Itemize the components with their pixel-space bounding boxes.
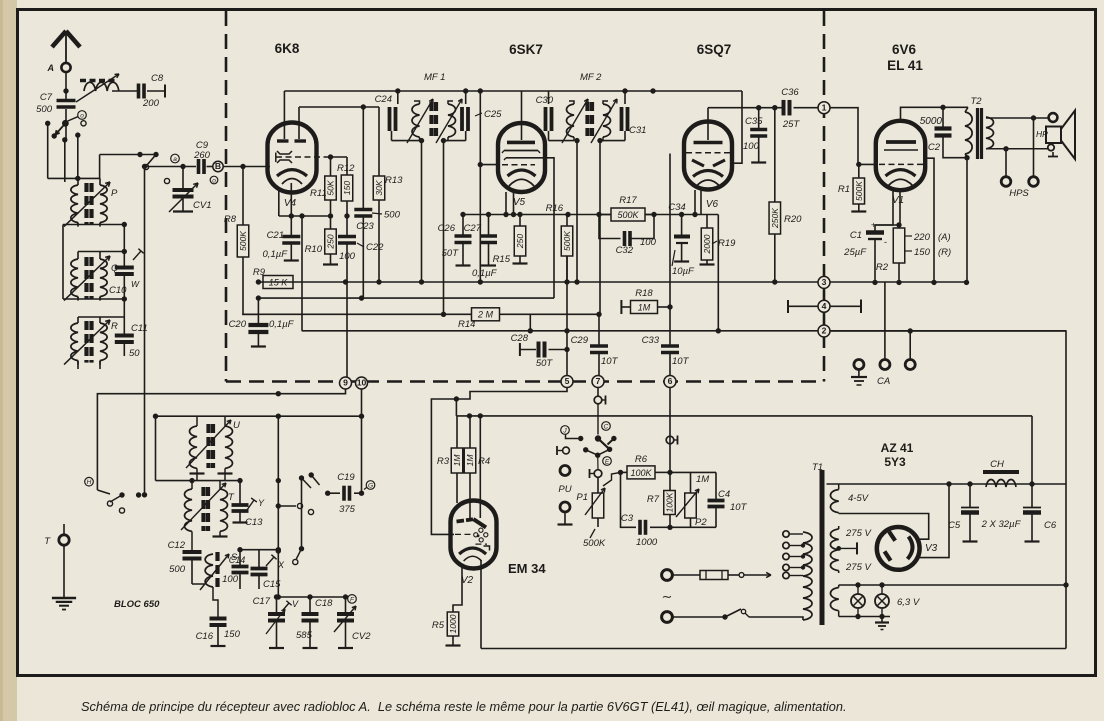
resistor R19	[700, 215, 737, 265]
switch near C19	[293, 472, 331, 564]
T1 secondary HT	[830, 526, 838, 573]
V1 plate wire	[901, 105, 969, 121]
HT rail	[827, 481, 1067, 486]
node 5	[561, 376, 573, 388]
node 6	[664, 376, 676, 388]
MF2 left coil	[567, 101, 575, 141]
label 275V b	[845, 562, 872, 573]
wire U row	[153, 414, 364, 419]
svg-text:150: 150	[914, 247, 931, 258]
svg-text:R15: R15	[493, 254, 511, 265]
capacitor C1	[843, 221, 887, 283]
terminal A	[47, 63, 71, 73]
capacitor C27	[464, 212, 498, 279]
svg-text:C4: C4	[718, 489, 730, 500]
svg-text:C31: C31	[629, 125, 646, 136]
capacitor C8	[139, 73, 164, 109]
svg-text:C12: C12	[168, 540, 186, 551]
switch lever	[143, 155, 156, 170]
wire screen row	[456, 413, 1032, 418]
label MF2	[580, 72, 602, 83]
svg-text:500K: 500K	[238, 231, 248, 251]
svg-text:AZ 41: AZ 41	[881, 441, 914, 455]
svg-text:R10: R10	[305, 244, 323, 255]
wire	[77, 135, 79, 178]
svg-text:R12: R12	[337, 163, 355, 174]
trimmer C14	[222, 550, 248, 589]
label mains	[662, 589, 673, 604]
resistor R13	[373, 107, 403, 200]
resistor R12	[337, 157, 355, 201]
open contact	[164, 178, 169, 183]
wire T	[63, 524, 65, 597]
svg-text:C25: C25	[484, 109, 502, 120]
resistor R6 100K	[621, 454, 673, 479]
svg-text:(R): (R)	[938, 247, 951, 258]
capacitor C5	[948, 484, 979, 542]
jack E	[590, 455, 602, 478]
node 3	[818, 276, 830, 288]
svg-text:P1: P1	[576, 492, 588, 503]
MF2 right coil	[600, 101, 611, 141]
junction	[180, 164, 185, 169]
switch cluster antenna	[45, 111, 86, 143]
svg-text:T2: T2	[970, 96, 982, 107]
svg-text:260: 260	[193, 150, 211, 161]
trimmer C13	[232, 481, 266, 528]
svg-text:500K: 500K	[854, 181, 864, 201]
V5 cathode	[508, 170, 536, 186]
svg-text:C13: C13	[245, 517, 263, 528]
resistor R8	[224, 164, 249, 257]
svg-text:C3: C3	[621, 513, 634, 524]
svg-text:R6: R6	[635, 454, 648, 465]
wire long left drop	[142, 164, 147, 495]
rectifier V3	[877, 527, 920, 570]
V1 screen	[884, 149, 918, 151]
V6 diode plates	[692, 160, 725, 166]
svg-text:R2: R2	[876, 262, 889, 273]
bottom rail	[481, 648, 1066, 650]
tube V1	[876, 121, 925, 190]
wire C12 to S	[192, 578, 205, 584]
wire below C7	[65, 109, 67, 140]
terminal PU2	[558, 502, 573, 525]
svg-text:C6: C6	[1044, 520, 1057, 531]
V6 top row	[708, 105, 783, 110]
tuning transformer Q	[64, 255, 119, 301]
choke CH	[983, 459, 1019, 487]
resistor R15	[493, 212, 528, 265]
svg-text:V6: V6	[706, 199, 719, 210]
resistor R7 100K	[647, 491, 675, 515]
svg-text:375: 375	[339, 504, 356, 515]
resistor R16	[546, 203, 573, 282]
svg-text:R14: R14	[458, 319, 475, 330]
heater rail top	[839, 584, 1066, 586]
wire diode out	[669, 154, 671, 346]
V2 grid dashes	[455, 533, 474, 535]
svg-text:C23: C23	[356, 221, 374, 232]
wire T2 bottom to rail	[966, 158, 968, 282]
svg-text:500: 500	[169, 564, 186, 575]
terminal CA	[880, 282, 890, 369]
svg-text:2000: 2000	[702, 234, 712, 254]
terminal gnd	[851, 360, 867, 386]
terminal HPS2	[1029, 177, 1039, 187]
svg-text:9: 9	[343, 378, 348, 388]
wire R6 right to P2 C4	[670, 471, 716, 473]
svg-text:150: 150	[342, 181, 352, 195]
svg-text:+: +	[871, 221, 876, 230]
antenna coupling coil	[76, 74, 119, 102]
svg-text:R19: R19	[718, 238, 736, 249]
resistor R4	[464, 416, 490, 519]
terminal CA2	[905, 331, 915, 370]
padding capacitor C11	[115, 323, 148, 359]
svg-text:R13: R13	[385, 175, 403, 186]
node 7	[592, 376, 604, 388]
capacitor C16	[196, 619, 241, 647]
svg-text:∼: ∼	[662, 589, 673, 604]
switch lever	[566, 435, 584, 442]
wire sec bottom	[986, 146, 1048, 151]
screen rail 2	[256, 295, 554, 300]
capacitor C7	[36, 92, 75, 115]
wire	[529, 314, 531, 331]
heater rail bottom	[839, 616, 890, 618]
svg-text:6SQ7: 6SQ7	[697, 42, 732, 57]
label 275V a	[845, 528, 872, 539]
svg-text:P2: P2	[695, 517, 707, 528]
wire MF1 secondary bottom	[441, 131, 466, 143]
svg-text:50T: 50T	[536, 358, 554, 369]
svg-text:C28: C28	[511, 333, 529, 344]
label V1	[892, 195, 904, 206]
ground	[52, 598, 76, 610]
svg-text:-: -	[884, 237, 887, 247]
wire	[597, 387, 599, 396]
wire V6 grid return	[732, 91, 742, 163]
node C	[602, 422, 611, 431]
V4 anode bars	[277, 139, 306, 142]
svg-text:EL 41: EL 41	[887, 58, 923, 73]
output transformer T2	[965, 107, 994, 159]
label EM 34	[508, 561, 546, 576]
svg-text:0,1µF: 0,1µF	[269, 319, 295, 330]
R2 taps	[905, 232, 951, 258]
wire	[278, 503, 302, 508]
oscillator transformer T	[181, 481, 235, 551]
node J	[561, 426, 570, 435]
wire V2 cathode	[453, 566, 462, 612]
svg-text:25T: 25T	[782, 119, 801, 130]
wire antenna down	[65, 72, 67, 100]
tuning transformer R	[64, 319, 118, 365]
svg-text:10T: 10T	[672, 356, 690, 367]
svg-text:R5: R5	[432, 620, 445, 631]
MF1 core	[432, 102, 437, 136]
svg-text:C8: C8	[151, 73, 164, 84]
capacitor C12	[168, 540, 202, 578]
svg-text:500K: 500K	[562, 231, 572, 251]
svg-text:3: 3	[822, 277, 827, 287]
svg-text:6: 6	[668, 376, 673, 386]
svg-text:C10: C10	[109, 285, 127, 296]
svg-text:CA: CA	[877, 376, 890, 387]
T1 secondary 4-5V	[830, 484, 838, 514]
cathode row	[463, 212, 718, 217]
svg-text:C: C	[604, 423, 609, 430]
svg-text:1M: 1M	[465, 454, 475, 467]
label V2	[461, 575, 474, 586]
wire V6 cathode leads	[695, 190, 701, 215]
wire R13 down	[376, 200, 381, 285]
potentiometer P2	[676, 472, 709, 528]
svg-text:6,3 V: 6,3 V	[897, 597, 921, 608]
wire MF2 secondary bottom	[597, 131, 625, 143]
label V6	[706, 199, 719, 210]
svg-text:V: V	[292, 599, 299, 609]
resistor R20	[769, 108, 802, 282]
wire R top rail	[78, 317, 124, 319]
svg-text:o: o	[212, 177, 216, 184]
wire cathode row	[279, 183, 333, 219]
svg-text:PU: PU	[558, 484, 571, 495]
V2 deflector	[473, 519, 486, 527]
wire MF1 to AVC rail	[443, 141, 445, 315]
V4 cathode	[277, 170, 307, 184]
T1 primary	[803, 532, 812, 620]
capacitor C9	[193, 140, 211, 174]
terminal PU	[560, 466, 570, 476]
heater gnd	[875, 617, 889, 630]
wire 4-5V to V3	[839, 514, 929, 540]
svg-text:W: W	[131, 279, 140, 289]
tube V6	[684, 122, 732, 190]
svg-text:25µF: 25µF	[843, 247, 867, 258]
svg-text:C16: C16	[196, 631, 214, 642]
label 4-5V	[848, 493, 870, 504]
capacitor C30	[536, 91, 554, 131]
svg-text:500: 500	[384, 210, 401, 221]
wire primary bottom	[749, 617, 803, 620]
svg-text:250K: 250K	[770, 208, 780, 229]
return rail	[302, 328, 1066, 334]
wire	[64, 140, 66, 182]
wire AVC grid V5	[478, 91, 499, 282]
svg-text:C30: C30	[536, 95, 554, 106]
capacitor C24	[375, 91, 398, 131]
AVC rail R14	[242, 312, 602, 317]
svg-text:C35: C35	[745, 116, 763, 127]
H switch	[97, 490, 147, 513]
speaker terminal top	[1049, 113, 1058, 122]
svg-text:C32: C32	[616, 245, 634, 256]
tube V2 EM34	[451, 501, 497, 569]
V4 grid structure	[276, 151, 330, 163]
svg-text:50: 50	[129, 348, 140, 359]
resistor R11	[310, 157, 336, 200]
dashed partition bottom	[226, 380, 824, 383]
svg-text:7: 7	[596, 376, 601, 386]
junction	[63, 88, 68, 93]
svg-text:250: 250	[515, 234, 525, 249]
node 10	[356, 377, 368, 389]
svg-text:100: 100	[640, 237, 657, 248]
svg-text:A: A	[47, 63, 55, 73]
wire	[62, 225, 64, 300]
label V4	[284, 198, 297, 209]
resistor R3	[437, 416, 463, 503]
trimmer C17	[253, 594, 299, 648]
svg-text:100K: 100K	[630, 468, 652, 478]
V2 pattern	[474, 528, 488, 542]
svg-text:HP: HP	[1036, 129, 1048, 139]
svg-text:585: 585	[296, 630, 313, 641]
svg-text:275 V: 275 V	[845, 562, 872, 573]
wire V6 cathode drop	[717, 215, 719, 331]
capacitor C23	[354, 107, 400, 298]
node H	[85, 477, 94, 486]
svg-text:G: G	[368, 482, 373, 489]
V2 target bars	[457, 519, 474, 521]
svg-text:2 X 32µF: 2 X 32µF	[981, 519, 1022, 530]
mains terminal L2	[662, 612, 673, 623]
tube V5	[498, 123, 545, 192]
V5 grid structure	[502, 151, 545, 165]
V1 cathode network	[875, 190, 900, 231]
svg-text:R11: R11	[310, 188, 327, 199]
T1 secondary 6.3V	[830, 585, 838, 617]
svg-text:C17: C17	[253, 596, 271, 607]
capacitor C4	[708, 472, 748, 527]
svg-text:1000: 1000	[448, 614, 458, 633]
svg-text:V4: V4	[284, 198, 297, 209]
svg-text:50T: 50T	[442, 248, 460, 259]
node F	[348, 595, 357, 604]
svg-text:50K: 50K	[326, 180, 336, 195]
wire V5 plate feed	[545, 158, 554, 298]
variable capacitor CV2	[334, 597, 371, 648]
wire Q top rail	[78, 249, 127, 255]
svg-text:R: R	[111, 321, 118, 332]
resistor R10	[305, 216, 338, 265]
lamp 1	[851, 582, 865, 619]
svg-text:150: 150	[224, 629, 241, 640]
svg-text:C5: C5	[948, 520, 961, 531]
svg-text:P: P	[111, 188, 118, 199]
top rail	[284, 88, 742, 93]
svg-text:C33: C33	[642, 335, 660, 346]
svg-text:C7: C7	[40, 92, 53, 103]
node 2	[818, 325, 830, 337]
wire T top row	[156, 478, 243, 483]
wire MF2 to B+ rail	[576, 141, 578, 282]
capacitor C19	[328, 472, 364, 515]
svg-text:V5: V5	[513, 197, 526, 208]
resistor R2	[876, 222, 905, 282]
capacitor C22	[338, 201, 384, 262]
wire	[1031, 416, 1033, 484]
svg-text:0,1µF: 0,1µF	[472, 268, 498, 279]
dashed partition left	[225, 11, 228, 382]
V6 grid dashes	[686, 152, 730, 154]
svg-text:C34: C34	[668, 202, 685, 213]
MF1 right coil	[444, 101, 456, 141]
wire MF1 to B+ rail	[421, 141, 423, 282]
label V3	[925, 543, 938, 554]
mains switch	[673, 609, 750, 620]
svg-text:6K8: 6K8	[275, 41, 300, 56]
MF2 core	[588, 102, 593, 136]
tuning transformer P	[64, 181, 118, 227]
PU jack 1	[557, 446, 569, 455]
variable capacitor CV1	[169, 167, 211, 213]
mains terminal L1	[662, 570, 673, 581]
label MF1	[424, 72, 445, 83]
svg-text:1M: 1M	[638, 302, 651, 312]
svg-text:C18: C18	[315, 598, 333, 609]
svg-text:4-5V: 4-5V	[848, 493, 870, 504]
capacitor C32	[599, 215, 657, 257]
wire padder row	[237, 547, 281, 552]
svg-text:500K: 500K	[583, 538, 606, 549]
wire	[48, 176, 100, 181]
svg-text:C22: C22	[366, 242, 384, 253]
svg-text:C29: C29	[571, 335, 589, 346]
label 6.3V	[897, 597, 921, 608]
label 6V6	[892, 42, 917, 57]
svg-text:R8: R8	[224, 214, 237, 225]
HT center tap	[836, 542, 857, 554]
wire R11 R12 top	[328, 154, 347, 159]
svg-text:220: 220	[913, 232, 931, 243]
T1 core	[820, 470, 825, 625]
node E	[603, 457, 612, 466]
svg-text:R3: R3	[437, 456, 450, 467]
svg-text:2 M: 2 M	[477, 310, 494, 320]
node10 drop	[361, 389, 363, 494]
svg-text:10T: 10T	[730, 502, 748, 513]
caption	[81, 699, 847, 714]
svg-text:CV1: CV1	[193, 200, 211, 211]
svg-text:C24: C24	[375, 94, 392, 105]
svg-text:Schéma de principe du récepteu: Schéma de principe du récepteur avec rad…	[81, 699, 847, 714]
label BLOC 650	[114, 599, 160, 610]
label T2	[970, 96, 982, 107]
dashed partition right	[823, 11, 826, 382]
wire target feed	[479, 416, 481, 518]
V5 anode bar	[507, 141, 535, 145]
svg-text:BLOC 650: BLOC 650	[114, 599, 160, 610]
wire V4 plate	[283, 91, 285, 139]
resistor R14 2M	[458, 308, 500, 330]
capacitor C26	[438, 212, 472, 266]
capacitor C36	[781, 87, 818, 130]
svg-text:1M: 1M	[696, 474, 709, 485]
label V5	[513, 197, 526, 208]
V6 top cap wire	[707, 108, 709, 140]
svg-text:4: 4	[822, 301, 827, 311]
svg-text:10: 10	[357, 378, 367, 388]
wire grid B to V4	[224, 166, 271, 168]
trimmer C15	[251, 550, 286, 590]
wire V3 cathode	[920, 484, 949, 558]
svg-text:(A): (A)	[938, 232, 951, 243]
capacitor C21	[263, 216, 301, 261]
svg-text:10µF: 10µF	[672, 266, 695, 277]
